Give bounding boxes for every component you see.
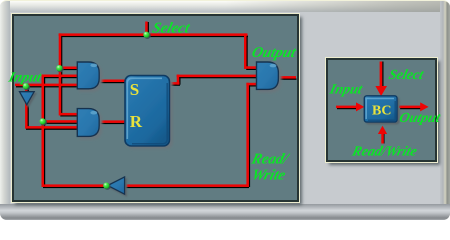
svg-text:Write: Write — [250, 167, 287, 184]
svg-text:Input: Input — [6, 70, 44, 86]
svg-text:Input: Input — [327, 82, 365, 98]
svg-text:R: R — [130, 112, 143, 131]
svg-text:Select: Select — [387, 67, 426, 83]
svg-text:Output: Output — [398, 110, 443, 126]
svg-text:Read/Write: Read/Write — [350, 144, 419, 160]
svg-text:Select: Select — [151, 20, 193, 37]
svg-text:Read/: Read/ — [249, 151, 292, 168]
svg-text:S: S — [130, 80, 139, 99]
svg-text:Output: Output — [250, 44, 298, 61]
svg-text:BC: BC — [372, 104, 391, 119]
